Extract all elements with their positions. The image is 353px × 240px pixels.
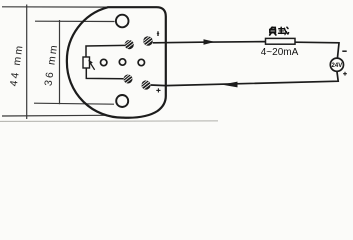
screw terminal signal - (bottom right)	[141, 79, 151, 91]
label 负载 (hand-drawn glyphs)	[270, 27, 276, 35]
dimension line 36mm vertical	[59, 20, 61, 104]
trimmer (zero adjust) rectangle	[83, 57, 90, 68]
power supply 24V	[330, 58, 343, 71]
screw terminal signal + (top right)	[143, 35, 153, 47]
polarity + of supply	[343, 72, 347, 76]
dimension extension line top (36mm)	[35, 20, 115, 22]
test jack circles (middle row)	[101, 59, 107, 65]
wire: top terminal to load	[153, 42, 266, 43]
svg-text:4~20mA: 4~20mA	[261, 47, 299, 58]
mounting hole bottom	[116, 95, 128, 107]
wire: load to supply corner and down	[295, 42, 339, 57]
dimension extension line bottom (44mm)	[2, 114, 105, 117]
dimension extension line top (44mm)	[2, 6, 110, 8]
svg-text:24V: 24V	[332, 63, 343, 69]
scan artifact: bottom smudge line	[0, 120, 218, 123]
wire trimmer bottom to inner screw	[86, 68, 124, 79]
polarity tick above top terminal	[157, 31, 159, 36]
transmitter housing outline	[67, 7, 166, 118]
arrow on top wire (pointing right)	[204, 39, 216, 45]
polarity + below bottom terminal	[156, 88, 160, 92]
dimension extension line bottom (36mm)	[34, 103, 114, 104]
load resistor 负载	[266, 38, 296, 44]
arrow on bottom wire (pointing left)	[222, 82, 238, 88]
polarity - of supply	[342, 50, 346, 52]
mounting hole top	[116, 15, 129, 28]
dimension line 44mm vertical	[26, 5, 28, 120]
screw terminal inner top	[124, 39, 134, 51]
trimmer arrow	[90, 63, 94, 70]
wire: supply bottom back to housing	[151, 72, 339, 86]
wire trimmer top to inner screw	[86, 45, 125, 57]
screw terminal inner bottom	[123, 73, 133, 85]
